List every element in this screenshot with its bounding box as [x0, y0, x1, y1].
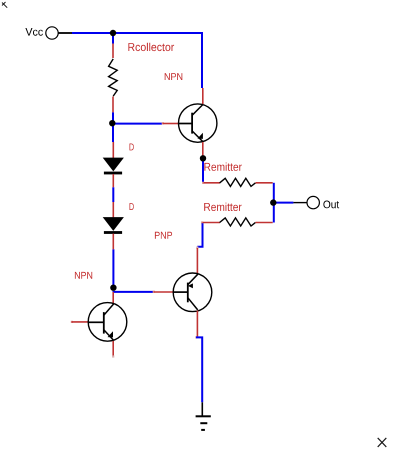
pin end marker R3 left: [201, 221, 203, 223]
resistor R3 Remitter body: [220, 218, 256, 226]
wire blue above node B: [112, 112, 114, 122]
wire blue below Vcc junction: [112, 33, 114, 44]
pin stub resistor R1 bottom (pin 2): [112, 97, 114, 113]
x marker top-left: [2, 2, 7, 8]
terminal Out: [307, 196, 319, 208]
pin end marker Q3 base: [71, 321, 73, 323]
transistor Q3 NPN symbol: [88, 303, 127, 342]
pin stub resistor R2 left (pin 1): [204, 182, 221, 184]
wire blue above D1: [112, 125, 114, 143]
pin stub resistor R2 right (pin 2): [256, 182, 273, 184]
pin stub diode D2 anode: [112, 202, 114, 217]
label PNP (Q2): [155, 232, 172, 239]
junction node Vcc/Rcollector: [110, 30, 116, 36]
label Rcollector: [128, 43, 174, 51]
transistor Q1 NPN symbol: [179, 104, 217, 142]
wire blue node OUT to terminal: [274, 202, 293, 204]
pin end marker Q1 base: [162, 122, 164, 124]
wire black ground lead: [201, 402, 203, 416]
junction node OUT: [270, 199, 276, 205]
wire blue R2 right corner down: [273, 183, 275, 203]
transistor Q2 PNP symbol: [173, 273, 212, 312]
pin stub diode D1 anode: [112, 142, 114, 158]
pin stub transistor Q1 base: [163, 123, 179, 125]
resistor R1 Rcollector body: [109, 59, 118, 96]
pin stub transistor Q2 collector: [196, 311, 198, 337]
label Remitter (R2): [204, 163, 241, 171]
pin stub diode D2 cathode: [112, 234, 114, 250]
wire black Out terminal lead: [293, 202, 307, 204]
pin end marker Q2 collector: [195, 336, 197, 338]
junction node B (Rcollector / Q1 base / diodes): [109, 120, 115, 126]
label Out: [323, 201, 339, 209]
wire blue from diode D2 to node C: [112, 249, 114, 286]
label D (D2): [130, 203, 134, 210]
pin stub transistor Q1 collector: [202, 88, 204, 104]
wire blue node E1 down: [202, 159, 204, 183]
pin stub transistor Q2 base: [154, 291, 174, 293]
pin stub resistor R3 right (pin 2): [256, 222, 273, 224]
wire blue node C to Q2 base: [113, 291, 154, 293]
pin stub transistor Q3 base: [72, 321, 89, 323]
wire Vcc rail horizontal blue: [72, 32, 203, 34]
wire blue R3 left down: [197, 223, 202, 247]
junction node C (diodes / Q2 base / Q3 collector): [110, 285, 116, 291]
pin end marker Q3 emitter: [112, 355, 114, 357]
label Vcc: [25, 28, 43, 36]
pin end marker Q2 emitter: [196, 247, 198, 249]
wire Vcc black lead: [58, 32, 72, 34]
label NPN (Q1): [165, 73, 183, 80]
x marker bottom-right: [378, 438, 387, 447]
pin stub transistor Q3 collector: [112, 292, 114, 304]
pin stub transistor Q2 emitter: [196, 248, 198, 274]
pin stub resistor R1 top (pin 1): [112, 44, 114, 59]
label Remitter (R3): [204, 203, 241, 211]
label D (D1): [130, 144, 134, 151]
pin end marker Q2 base: [153, 291, 155, 293]
wire blue node B to Q1 base: [113, 123, 162, 125]
diode D1 body: [103, 158, 124, 175]
wire blue between D1 and D2: [112, 187, 114, 202]
wire blue Q2 collector to ground vertical: [196, 337, 202, 402]
pin end marker R2 left: [202, 182, 204, 184]
wire Vcc rail vertical blue: [201, 32, 203, 88]
resistor R2 Remitter body: [220, 178, 256, 186]
junction node E1 (Q1 emitter / Remitter): [200, 155, 206, 161]
pin stub transistor Q3 emitter: [112, 341, 114, 356]
wire blue R3 right up to node OUT: [273, 203, 275, 223]
pin stub resistor R3 left (pin 1): [203, 222, 221, 224]
pin stub transistor Q1 emitter: [202, 142, 204, 157]
label NPN (Q3): [75, 272, 92, 279]
terminal Vcc: [46, 27, 58, 39]
diode D2 body: [103, 217, 124, 234]
pin stub diode D1 cathode: [112, 174, 114, 187]
ground symbol: [196, 416, 211, 430]
